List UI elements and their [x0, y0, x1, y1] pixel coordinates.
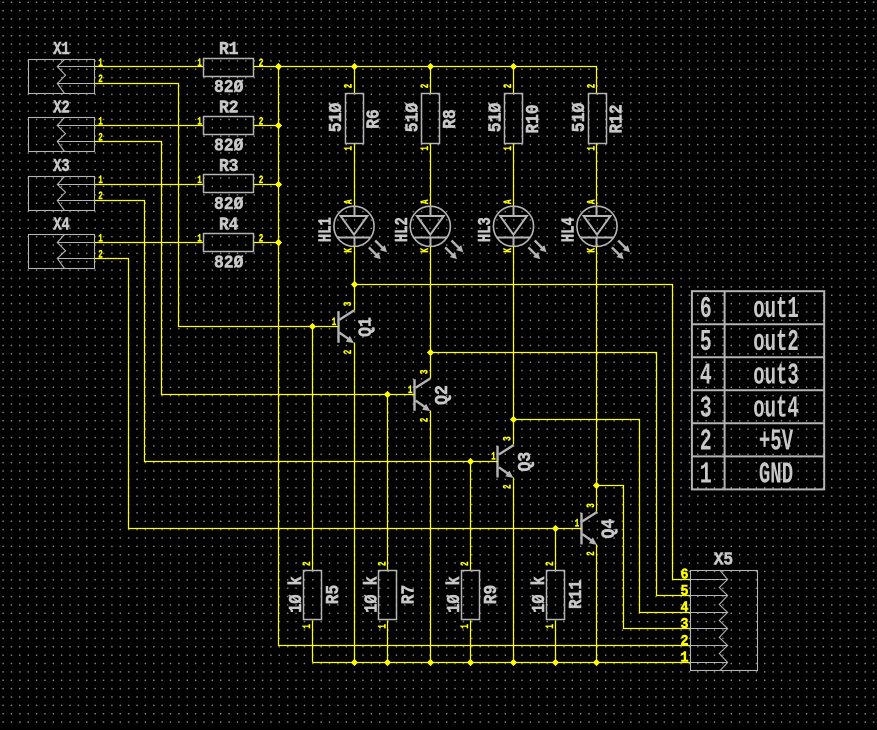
wire X4.2 to Q4 base: [95, 259, 582, 529]
resistor R1: [204, 59, 254, 77]
pin name table: [692, 291, 824, 489]
svg-text:2: 2: [377, 561, 389, 566]
resistor R5: [304, 571, 322, 620]
junction out2 tap: [427, 349, 434, 356]
resistor R7: [379, 571, 397, 620]
svg-text:51Ø: 51Ø: [569, 103, 590, 132]
wire GND bus to X5 pin 1: [313, 662, 691, 664]
wire out1: Q1 collector to X5 pin 6: [355, 285, 691, 580]
svg-text:out3: out3: [753, 358, 799, 393]
transistor Q4: [582, 512, 598, 545]
svg-text:X3: X3: [53, 156, 69, 177]
svg-text:3: 3: [586, 503, 598, 508]
wire HL3 cathode to Q3 collector: [513, 247, 515, 445]
connector X5: [691, 571, 758, 671]
svg-text:2: 2: [344, 84, 356, 89]
svg-text:2: 2: [98, 133, 103, 145]
wire top bus to R10.2: [513, 67, 515, 94]
wire HL4 cathode to Q4 collector: [596, 247, 598, 512]
svg-text:2: 2: [420, 418, 432, 423]
svg-text:R9: R9: [481, 585, 502, 604]
resistor R11: [547, 571, 565, 620]
svg-text:3: 3: [700, 391, 712, 426]
svg-text:R3: R3: [219, 156, 238, 177]
svg-text:R7: R7: [398, 585, 419, 604]
svg-text:1Ø k: 1Ø k: [444, 576, 465, 612]
junction R1.2 / +5V rail: [275, 63, 282, 70]
svg-text:R11: R11: [566, 580, 587, 609]
transistor Q2: [415, 378, 431, 411]
svg-text:R10: R10: [523, 104, 544, 133]
wire Q4 emitter to GND bus: [596, 545, 598, 663]
wire out2: Q2 collector to X5 pin 5: [431, 353, 691, 596]
svg-text:1: 1: [197, 58, 202, 70]
junction Q2 base / R7: [384, 391, 391, 398]
wire HL2 cathode to Q2 collector: [430, 247, 432, 379]
svg-text:1Ø k: 1Ø k: [361, 576, 382, 612]
wire top bus to R6.2: [354, 67, 356, 94]
svg-text:1: 1: [197, 175, 202, 187]
svg-text:1: 1: [681, 650, 689, 666]
svg-text:1: 1: [98, 116, 103, 128]
svg-text:2: 2: [259, 234, 264, 246]
LED HL3: [493, 206, 546, 259]
svg-text:51Ø: 51Ø: [486, 103, 507, 132]
wire +5V rail vertical and to X5 pin 2: [279, 67, 691, 646]
junction Q3 emitter / GND bus: [510, 659, 517, 666]
resistor R3: [204, 175, 254, 193]
wire R7.1 to GND bus: [387, 621, 389, 663]
svg-text:2: 2: [343, 350, 355, 355]
wire R11.1 to GND bus: [555, 621, 557, 663]
svg-text:R5: R5: [323, 585, 344, 604]
svg-text:out2: out2: [753, 325, 799, 360]
svg-text:1: 1: [197, 116, 202, 128]
svg-text:2: 2: [302, 561, 314, 566]
svg-text:4: 4: [700, 358, 712, 393]
wire R5.1 to GND bus corner: [312, 621, 314, 663]
connector X1: [29, 60, 96, 94]
svg-text:A: A: [587, 199, 599, 204]
junction R11.1 / GND bus: [552, 659, 559, 666]
svg-text:6: 6: [681, 567, 689, 583]
junction R3.2 / +5V rail: [275, 181, 282, 188]
svg-text:X1: X1: [53, 39, 69, 60]
svg-text:Q1: Q1: [356, 317, 377, 337]
svg-text:2: 2: [681, 634, 689, 650]
svg-text:X2: X2: [53, 97, 69, 118]
svg-text:X4: X4: [53, 214, 69, 235]
svg-text:51Ø: 51Ø: [403, 103, 424, 132]
svg-text:6: 6: [700, 292, 712, 327]
svg-text:out4: out4: [753, 391, 799, 426]
wire R2.2 to +5V rail: [254, 125, 279, 127]
svg-text:1Ø k: 1Ø k: [286, 576, 307, 612]
transistor Q3: [498, 445, 514, 478]
svg-text:3: 3: [420, 369, 432, 374]
connector X4: [29, 235, 96, 269]
wire X1.1 to R1.1: [95, 66, 204, 68]
svg-text:2: 2: [587, 84, 599, 89]
wire out4: Q4 collector to X5 pin 3: [597, 486, 691, 629]
wire R1.2 to +5V rail: [254, 66, 279, 68]
junction Q4 emitter / GND bus: [593, 659, 600, 666]
svg-text:5: 5: [700, 325, 712, 360]
svg-text:A: A: [420, 199, 432, 204]
resistor R4: [204, 234, 254, 252]
svg-text:HL1: HL1: [316, 217, 337, 242]
wire X3.2 to Q3 base: [95, 201, 498, 462]
svg-text:K: K: [344, 248, 356, 253]
wire HL1 cathode to Q1 collector: [354, 247, 356, 311]
wire Q1 emitter to GND bus: [354, 343, 356, 663]
svg-text:out1: out1: [753, 292, 799, 327]
resistor R9: [462, 571, 480, 620]
connector X3: [29, 177, 96, 211]
svg-text:2: 2: [700, 424, 712, 459]
svg-text:1: 1: [98, 233, 103, 245]
junction R4.2 / +5V rail: [275, 239, 282, 246]
junction out3 tap: [510, 416, 517, 423]
junction Q2 emitter / GND bus: [427, 659, 434, 666]
junction out4 tap: [593, 482, 600, 489]
junction Q4 base / R11: [552, 525, 559, 532]
svg-text:HL2: HL2: [392, 217, 413, 242]
svg-text:82Ø: 82Ø: [214, 77, 243, 98]
svg-text:82Ø: 82Ø: [214, 253, 243, 274]
svg-text:1: 1: [700, 457, 712, 492]
resistor R8: [422, 94, 440, 144]
svg-text:2: 2: [98, 74, 103, 86]
wire R3.2 to +5V rail: [254, 184, 279, 186]
svg-text:Q4: Q4: [599, 519, 620, 539]
svg-text:1: 1: [344, 146, 356, 151]
svg-text:2: 2: [259, 117, 264, 129]
transistor Q1: [339, 310, 355, 343]
svg-text:X5: X5: [714, 550, 733, 571]
wire Q3 emitter to GND bus: [513, 478, 515, 663]
svg-text:2: 2: [259, 58, 264, 70]
wire +5V top bus to R6/R8/R10/R12: [279, 67, 597, 94]
wire X3.1 to R3.1: [95, 184, 204, 186]
svg-text:2: 2: [460, 561, 472, 566]
svg-text:1Ø k: 1Ø k: [529, 576, 550, 612]
svg-text:R1: R1: [219, 39, 238, 60]
svg-text:2: 2: [98, 250, 103, 262]
svg-text:82Ø: 82Ø: [214, 136, 243, 157]
svg-text:GND: GND: [759, 457, 793, 492]
svg-text:2: 2: [545, 561, 557, 566]
junction R9.1 / GND bus: [467, 659, 474, 666]
wire Q2 emitter to GND bus: [430, 411, 432, 663]
junction top bus / R10: [510, 63, 517, 70]
svg-text:R12: R12: [607, 104, 628, 133]
wire out3: Q3 collector to X5 pin 4: [514, 420, 691, 613]
svg-text:2: 2: [259, 175, 264, 187]
junction Q1 emitter / GND bus: [351, 659, 358, 666]
junction Q3 base / R9: [467, 458, 474, 465]
resistor R12: [589, 94, 607, 144]
svg-text:51Ø: 51Ø: [326, 103, 347, 132]
svg-text:A: A: [503, 199, 515, 204]
svg-text:R6: R6: [364, 109, 385, 128]
svg-text:A: A: [344, 199, 356, 204]
resistor R2: [204, 117, 254, 135]
svg-text:5: 5: [681, 584, 689, 600]
wire Q1 base node to R5.2: [312, 327, 314, 571]
svg-text:HL3: HL3: [475, 217, 496, 242]
wire X2.1 to R2.1: [95, 125, 204, 127]
wire R9.1 to GND bus: [470, 621, 472, 663]
svg-text:1: 1: [197, 233, 202, 245]
wire R12.1 to HL4 anode: [596, 144, 598, 207]
svg-text:Q3: Q3: [515, 452, 536, 472]
svg-text:Q2: Q2: [432, 385, 453, 405]
svg-text:R4: R4: [219, 214, 238, 235]
wire R4.2 to +5V rail: [254, 242, 279, 244]
wire X4.1 to R4.1: [95, 242, 204, 244]
LED HL2: [410, 206, 463, 259]
svg-text:82Ø: 82Ø: [214, 194, 243, 215]
svg-text:2: 2: [503, 84, 515, 89]
wire R8.1 to HL2 anode: [430, 144, 432, 207]
svg-text:+5V: +5V: [759, 424, 793, 459]
junction R2.2 / +5V rail: [275, 122, 282, 129]
wire X1.2 to Q1 base: [95, 84, 339, 327]
junction out1 tap: [351, 281, 358, 288]
wire Q3 base node to R9.2: [470, 462, 472, 571]
resistor R6: [346, 94, 364, 144]
junction top bus / R8: [427, 63, 434, 70]
wire R10.1 to HL3 anode: [513, 144, 515, 207]
svg-text:3: 3: [343, 301, 355, 306]
LED HL1: [334, 206, 387, 259]
LED HL4: [577, 206, 630, 259]
resistor R10: [505, 94, 523, 144]
junction top bus / R6: [351, 63, 358, 70]
wire top bus to R8.2: [430, 67, 432, 94]
svg-text:HL4: HL4: [559, 217, 580, 242]
svg-text:3: 3: [503, 436, 515, 441]
svg-text:3: 3: [681, 617, 689, 633]
svg-text:1: 1: [98, 58, 103, 70]
connector X2: [29, 118, 96, 152]
wire Q4 base node to R11.2: [555, 529, 557, 571]
wire Q2 base node to R7.2: [387, 395, 389, 571]
junction R7.1 / GND bus: [384, 659, 391, 666]
svg-text:2: 2: [98, 191, 103, 203]
svg-text:2: 2: [420, 84, 432, 89]
svg-text:R2: R2: [219, 97, 238, 118]
wire X2.2 to Q2 base: [95, 142, 415, 395]
junction Q1 base / R5: [309, 323, 316, 330]
svg-text:4: 4: [681, 601, 689, 617]
wire R6.1 to HL1 anode: [354, 144, 356, 207]
svg-text:R8: R8: [440, 109, 461, 128]
